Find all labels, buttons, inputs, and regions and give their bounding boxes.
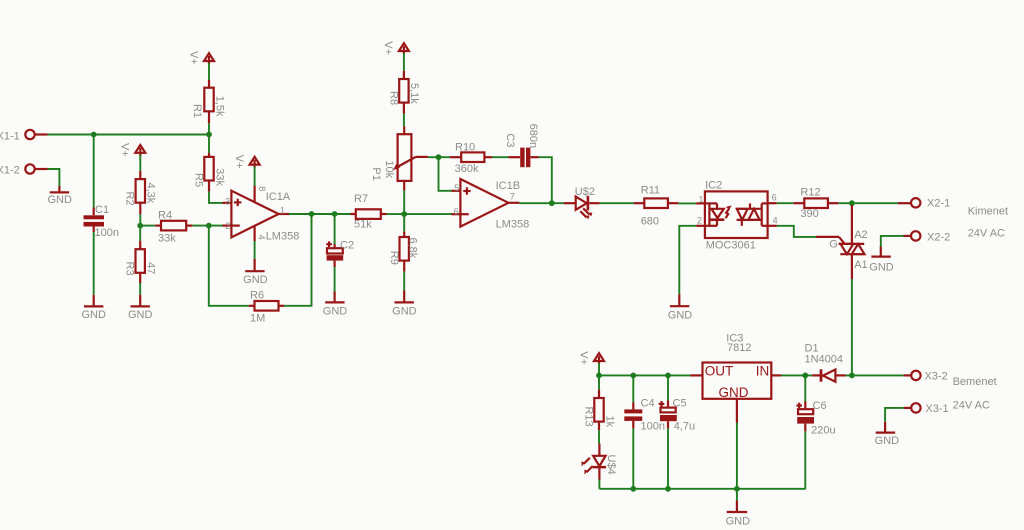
supply V+ above R2 [119,143,146,157]
svg-text:1: 1 [698,194,703,204]
node junction pin2/feedback [206,223,212,229]
node junction feedback [309,211,315,217]
wire C2 to ground [334,267,336,292]
svg-text:IC1B: IC1B [496,180,520,192]
wire R7 to pin6 line [387,213,452,215]
wire LED to R11 [600,202,634,204]
wire C3 to output node [539,157,552,203]
supply V+ above IC1A [233,155,260,169]
wire R1 to node [208,123,210,134]
svg-text:C3: C3 [504,133,516,147]
capacitor C4 100n [624,397,665,432]
node junction C5 tap [665,373,671,379]
capacitor C1 [84,204,119,239]
svg-text:GND: GND [128,309,153,321]
svg-text:390: 390 [800,208,818,220]
svg-text:A2: A2 [854,229,867,241]
svg-text:7: 7 [510,192,515,202]
wire IC3 GND pin to bottom rail [736,423,738,489]
connector X1-1 [0,130,48,143]
wire node down to IC1B pin5 [439,157,452,191]
connector X3-1 [904,403,949,415]
wire node to R4 [140,225,155,227]
svg-text:220u: 220u [811,425,835,437]
svg-text:OUT: OUT [705,364,734,379]
resistor R1 1,5k [191,80,225,123]
connector X3-2 [904,370,948,382]
wire node down to R3 [139,226,141,241]
feedback wire pin2 to R6 [209,226,249,306]
svg-text:GND: GND [323,305,348,317]
svg-text:GND: GND [81,309,106,321]
wire V+ rail to IC3 OUT [599,374,690,376]
node junction D1/C6 [802,373,808,379]
svg-text:4: 4 [256,235,266,240]
svg-text:4,3k: 4,3k [145,183,157,204]
svg-text:A1: A1 [854,259,867,271]
regulator IC3 7812 [690,363,781,423]
wire D1 to X3-2 [846,374,904,376]
connector X2-1 [898,198,950,210]
svg-text:33k: 33k [213,168,225,186]
svg-text:5,1k: 5,1k [408,83,420,104]
svg-text:MOC3061: MOC3061 [706,239,756,251]
wire R4 to IC1A pin2 node [192,225,222,227]
wire C4 to bottom rail [632,428,634,488]
svg-text:Bemenet: Bemenet [953,376,997,388]
svg-text:7812: 7812 [727,342,751,354]
wire IC2 pin6 to R12 [768,202,794,204]
resistor R10 360k [450,141,492,174]
wire R5 to IC1A pin3 [209,191,223,203]
svg-text:C4: C4 [641,397,655,409]
wire V+ to R2 [139,155,141,171]
ground below rail [726,500,751,527]
svg-text:24V AC: 24V AC [968,227,1005,239]
svg-text:1,5k: 1,5k [213,96,225,117]
capacitor C5 4,7u [659,398,695,433]
supply V+ above R8 [382,41,409,55]
diode D1 1N4004 [805,343,846,382]
resistor R2 4,3k [124,171,157,214]
triac T1 gate lead [816,237,845,250]
resistor R3 47 [124,241,157,283]
ground below X1-2 [47,186,72,206]
LED U$2 [564,186,600,219]
svg-text:R7: R7 [354,193,368,205]
supply V+ above R1 [187,51,214,65]
wire X1-2 to ground [48,169,60,186]
feedback wire R6 to output node [284,214,311,306]
LED U$4 [582,444,617,480]
wire C1 to ground [93,232,95,295]
svg-text:V+: V+ [187,51,199,65]
wire C5 to bottom rail [667,428,669,488]
svg-text:51k: 51k [354,219,372,231]
svg-text:U$4: U$4 [605,455,617,475]
node junction wiper/R10/pin5 [436,154,442,160]
node junction at C1 top [91,132,97,138]
svg-text:360k: 360k [455,163,479,175]
supply V+ above R13 [577,351,604,365]
wire node down to C6 [804,375,806,401]
capacitor C2 4,7u style polarized [326,240,354,268]
wire X3-1 to ground [885,408,904,422]
svg-text:GND: GND [392,305,417,317]
svg-text:6: 6 [454,207,459,217]
svg-text:100n: 100n [641,420,665,432]
svg-text:P1: P1 [370,167,382,180]
ground below X2-2 [869,247,894,274]
node junction C5/rail [665,486,671,492]
svg-text:IN: IN [756,364,770,379]
node junction IC3 GND/rail [734,486,740,492]
svg-text:GND: GND [668,309,693,321]
svg-text:X2-1: X2-1 [927,198,950,210]
svg-text:C5: C5 [673,398,687,410]
svg-text:Kimenet: Kimenet [968,206,1008,218]
svg-text:R9: R9 [388,251,400,265]
svg-text:680n: 680n [527,124,539,148]
bottom rail wire [599,488,805,490]
wire triac A1 down [851,279,853,375]
svg-text:10k: 10k [383,160,395,178]
svg-text:2: 2 [225,221,230,231]
svg-text:IC2: IC2 [705,180,722,192]
svg-text:C6: C6 [813,400,827,412]
wire IC3 IN to D1 node [781,374,812,376]
svg-text:R10: R10 [455,141,475,153]
wire R2 to node [139,214,141,226]
triac T1 [840,205,867,279]
svg-text:LM358: LM358 [266,231,300,243]
svg-text:U$2: U$2 [575,186,595,198]
ground below IC2 pin2 [668,294,693,321]
wire LED to bottom rail [598,480,600,489]
capacitor C3 680n [504,124,539,168]
wire V+ to rail [598,363,600,375]
node junction R2/R3/R4 [137,223,143,229]
node junction C2 tap [332,211,338,217]
svg-text:R6: R6 [250,289,264,301]
svg-text:1M: 1M [250,312,265,324]
svg-text:R8: R8 [387,91,399,105]
resistor R8 5,1k [387,71,420,114]
svg-text:X1-2: X1-2 [0,165,20,177]
svg-text:R3: R3 [124,262,136,276]
svg-text:GND: GND [875,435,900,447]
op-amp IC1B [452,179,530,230]
capacitor C6 220u [796,400,835,437]
wire R9 to ground [403,272,405,291]
svg-text:6: 6 [772,192,777,202]
svg-text:1: 1 [280,205,285,215]
optocoupler IC2 MOC3061 [696,180,778,252]
svg-text:1k: 1k [604,416,616,428]
resistor R13 1k [582,390,615,431]
node junction V+/R13 [596,373,602,379]
wire down to C1 [93,135,95,208]
resistor R6 1M [249,289,284,324]
ground below R3 [128,295,153,322]
wire R3 to ground [139,283,141,295]
wire rail to ground [736,489,738,501]
wire IC1A output [289,213,351,215]
svg-text:100n: 100n [95,227,119,239]
wire IC2 pin2 to ground [679,226,705,294]
wire rail down to R13 [598,375,600,389]
wire node to R5 [208,135,210,153]
svg-text:C1: C1 [95,204,109,216]
op-amp IC1A [223,186,300,243]
wire P1 bottom to R9 [403,190,405,231]
svg-text:GND: GND [726,516,751,528]
svg-text:V+: V+ [382,41,394,55]
wire X2-2 to ground [881,236,904,247]
svg-text:4: 4 [773,216,778,226]
svg-text:GND: GND [719,385,749,400]
svg-text:IC1A: IC1A [266,191,291,203]
wire R12 to X2-1 [838,202,898,204]
resistor R12 390 [794,186,839,220]
wire V+ to R1 [208,63,210,80]
svg-text:R11: R11 [641,185,660,197]
svg-text:R1: R1 [191,104,203,118]
svg-text:1N4004: 1N4004 [805,354,844,366]
svg-text:R2: R2 [124,192,136,206]
wire R11 to IC2 pin1 [678,202,696,204]
wire R8 to P1 [403,114,405,127]
node junction C4/rail [630,486,636,492]
wire C5 tap down [667,375,669,400]
svg-text:C2: C2 [340,240,354,252]
node junction D1/triac A1 [849,373,855,379]
svg-text:680: 680 [641,215,659,227]
svg-text:X2-2: X2-2 [927,231,950,243]
svg-text:5: 5 [454,183,459,193]
svg-text:V+: V+ [577,351,589,365]
wire IC2 pin4 to triac gate [768,226,816,237]
ground below C2 [323,292,348,318]
wire C6 to bottom rail [804,431,806,488]
connector X2-2 [904,231,951,243]
svg-text:R13: R13 [582,407,594,427]
node junction output/C3 feedback [549,200,555,206]
svg-text:47: 47 [145,262,157,274]
resistor R9 6,8k [388,232,419,272]
svg-text:2: 2 [697,216,702,226]
resistor R4 33k [155,209,192,244]
resistor R5 33k [193,153,226,192]
svg-text:R5: R5 [193,173,205,187]
wire C4 tap down [632,375,634,402]
svg-text:X1-1: X1-1 [0,130,20,142]
svg-text:V+: V+ [119,143,131,157]
wire V+ to IC1A pin8 [254,167,256,186]
svg-text:GND: GND [243,274,268,286]
node junction R9/P1/R7 [401,211,407,217]
ground below C1 [81,295,106,322]
svg-text:33k: 33k [158,233,176,245]
svg-text:6,8k: 6,8k [407,238,419,259]
svg-text:24V AC: 24V AC [953,400,990,412]
ground below IC1A pin4 [243,241,268,286]
ground below R9 [392,291,417,318]
resistor R7 51k [351,193,387,231]
potentiometer P1 10k [370,126,428,190]
resistor R11 680 [634,185,679,228]
wire V+ to R8 [403,53,405,71]
ground below X3-1 [875,422,900,447]
wire C2 tap down [334,214,336,244]
svg-text:R4: R4 [158,209,172,221]
node junction R12/triac A2 [849,200,855,206]
svg-text:4,7u: 4,7u [674,420,695,432]
svg-text:GND: GND [47,194,72,206]
connector X1-2 [0,164,48,176]
svg-text:8: 8 [257,186,267,191]
wire wiper to node [428,156,450,158]
svg-text:G: G [829,238,838,250]
svg-text:LM358: LM358 [496,218,530,230]
wire net X1-1 to R1/R5 node [48,134,210,136]
node junction R1/R5/X1-1 [206,132,212,138]
svg-text:GND: GND [869,261,894,273]
svg-text:X3-1: X3-1 [925,403,948,415]
svg-text:3: 3 [225,196,230,206]
wire IC1B output to LED [519,202,563,204]
wire R10 to C3 [492,156,509,158]
node junction C4 tap [630,373,636,379]
svg-text:X3-2: X3-2 [925,370,948,382]
svg-text:R12: R12 [800,186,820,198]
svg-text:V+: V+ [233,155,245,169]
wire R13 to LED [598,430,600,444]
